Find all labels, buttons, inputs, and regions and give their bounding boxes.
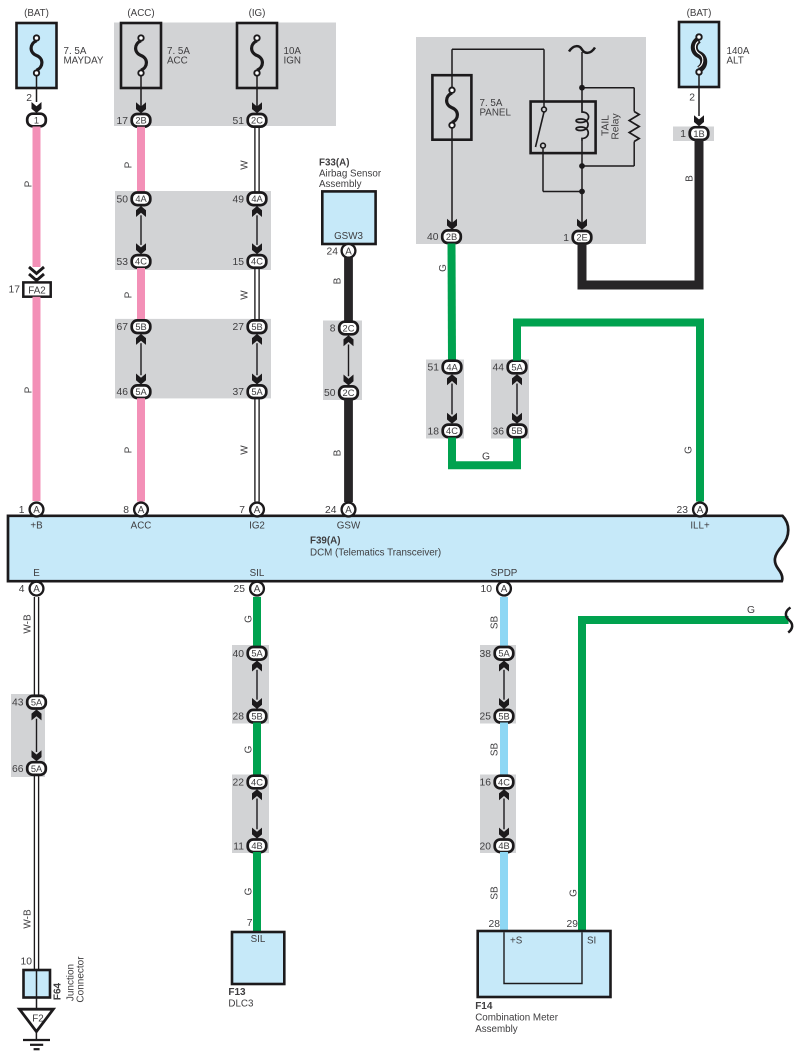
svg-text:(BAT): (BAT)	[687, 8, 712, 19]
svg-text:10: 10	[21, 957, 33, 968]
svg-text:2E: 2E	[576, 233, 587, 243]
svg-text:5B: 5B	[135, 322, 146, 332]
svg-text:+S: +S	[510, 936, 523, 947]
svg-text:SPDP: SPDP	[491, 568, 518, 579]
svg-text:17: 17	[9, 284, 21, 295]
svg-text:P: P	[123, 161, 134, 168]
svg-text:F64: F64	[53, 982, 64, 1000]
svg-text:4A: 4A	[446, 362, 458, 372]
svg-text:IGN: IGN	[284, 56, 301, 67]
svg-text:F14: F14	[475, 1001, 493, 1012]
svg-text:Relay: Relay	[611, 112, 622, 139]
svg-text:1: 1	[34, 115, 39, 125]
svg-text:10: 10	[481, 584, 493, 595]
svg-text:Assembly: Assembly	[319, 179, 362, 190]
svg-text:A: A	[345, 505, 352, 516]
svg-text:4A: 4A	[251, 194, 263, 204]
svg-text:23: 23	[677, 505, 689, 516]
svg-text:4: 4	[19, 584, 25, 595]
svg-text:P: P	[123, 291, 134, 298]
svg-text:4B: 4B	[498, 841, 509, 851]
svg-text:+B: +B	[30, 520, 43, 531]
svg-text:G: G	[568, 889, 579, 897]
svg-text:51: 51	[428, 363, 440, 374]
svg-text:28: 28	[489, 919, 501, 930]
svg-text:5A: 5A	[251, 387, 263, 397]
svg-text:40: 40	[427, 232, 439, 243]
svg-text:P: P	[23, 180, 34, 187]
svg-text:25: 25	[234, 584, 246, 595]
svg-text:A: A	[697, 505, 704, 516]
svg-text:50: 50	[324, 388, 336, 399]
svg-text:4A: 4A	[135, 194, 147, 204]
svg-text:5A: 5A	[251, 649, 263, 659]
svg-text:7: 7	[247, 918, 253, 929]
svg-text:W: W	[239, 290, 250, 300]
svg-text:SB: SB	[489, 743, 500, 757]
svg-text:2: 2	[26, 93, 32, 104]
svg-text:ILL+: ILL+	[690, 520, 710, 531]
svg-text:B: B	[333, 449, 344, 456]
svg-text:P: P	[123, 446, 134, 453]
svg-text:5A: 5A	[31, 698, 43, 708]
svg-text:A: A	[254, 584, 261, 595]
svg-text:17: 17	[117, 116, 129, 127]
svg-text:G: G	[683, 446, 694, 454]
svg-text:Assembly: Assembly	[475, 1024, 518, 1035]
svg-text:29: 29	[567, 919, 579, 930]
svg-text:F2: F2	[32, 1014, 43, 1025]
svg-text:4C: 4C	[135, 257, 147, 267]
svg-text:(BAT): (BAT)	[24, 8, 49, 19]
svg-text:44: 44	[493, 363, 505, 374]
svg-text:8: 8	[330, 324, 336, 335]
svg-text:ACC: ACC	[167, 56, 188, 67]
svg-text:B: B	[684, 175, 695, 182]
svg-text:E: E	[33, 568, 40, 579]
svg-text:5B: 5B	[498, 712, 509, 722]
svg-text:Connector: Connector	[75, 956, 86, 1003]
svg-text:22: 22	[233, 778, 245, 789]
svg-text:7: 7	[239, 505, 245, 516]
svg-text:Airbag Sensor: Airbag Sensor	[319, 169, 382, 180]
svg-text:G: G	[482, 452, 490, 463]
svg-text:24: 24	[325, 505, 337, 516]
svg-text:F39(A): F39(A)	[310, 536, 340, 547]
svg-text:SI: SI	[587, 936, 596, 947]
svg-text:DLC3: DLC3	[228, 999, 254, 1010]
svg-text:G: G	[438, 264, 449, 272]
svg-text:5A: 5A	[135, 387, 147, 397]
svg-text:W: W	[239, 445, 250, 455]
svg-text:G: G	[243, 887, 254, 895]
svg-text:FA2: FA2	[28, 286, 45, 297]
svg-text:4C: 4C	[446, 426, 458, 436]
svg-text:2C: 2C	[343, 388, 355, 398]
svg-text:W-B: W-B	[22, 614, 33, 634]
svg-text:2: 2	[689, 93, 695, 104]
svg-text:Combination Meter: Combination Meter	[475, 1013, 559, 1024]
svg-text:37: 37	[233, 387, 245, 398]
svg-text:4B: 4B	[251, 841, 262, 851]
svg-text:G: G	[243, 745, 254, 753]
svg-text:5B: 5B	[511, 426, 522, 436]
svg-text:1: 1	[563, 233, 569, 244]
svg-text:25: 25	[480, 712, 492, 723]
svg-text:18: 18	[428, 426, 440, 437]
svg-text:5A: 5A	[498, 649, 510, 659]
svg-text:51: 51	[233, 116, 245, 127]
svg-text:1B: 1B	[693, 129, 704, 139]
svg-text:8: 8	[123, 505, 129, 516]
svg-text:ACC: ACC	[131, 520, 152, 531]
svg-text:G: G	[243, 615, 254, 623]
svg-text:2B: 2B	[135, 116, 146, 126]
svg-text:PANEL: PANEL	[480, 108, 512, 119]
svg-text:2C: 2C	[343, 323, 355, 333]
svg-text:GSW3: GSW3	[334, 231, 363, 242]
svg-text:MAYDAY: MAYDAY	[64, 56, 104, 67]
svg-text:11: 11	[233, 841, 244, 852]
svg-text:5B: 5B	[251, 712, 262, 722]
svg-text:16: 16	[480, 778, 492, 789]
svg-text:4C: 4C	[498, 777, 510, 787]
svg-text:20: 20	[480, 841, 492, 852]
svg-text:IG2: IG2	[249, 520, 265, 531]
svg-text:2C: 2C	[251, 116, 263, 126]
svg-text:50: 50	[117, 194, 129, 205]
svg-text:5B: 5B	[251, 322, 262, 332]
svg-text:P: P	[23, 386, 34, 393]
svg-text:2B: 2B	[446, 232, 457, 242]
svg-text:A: A	[33, 584, 40, 595]
svg-text:GSW: GSW	[337, 520, 361, 531]
svg-text:(ACC): (ACC)	[127, 8, 154, 19]
svg-text:(IG): (IG)	[249, 8, 266, 19]
svg-text:4C: 4C	[251, 777, 263, 787]
svg-text:DCM (Telematics Transceiver): DCM (Telematics Transceiver)	[310, 548, 441, 559]
svg-text:F33(A): F33(A)	[319, 158, 349, 169]
svg-text:38: 38	[480, 649, 492, 660]
svg-text:SB: SB	[489, 886, 500, 900]
svg-text:36: 36	[493, 426, 505, 437]
svg-text:66: 66	[12, 764, 24, 775]
svg-text:A: A	[345, 246, 352, 257]
svg-text:49: 49	[233, 194, 245, 205]
svg-text:5A: 5A	[511, 362, 523, 372]
svg-text:F13: F13	[228, 987, 246, 998]
svg-text:15: 15	[233, 257, 245, 268]
svg-text:A: A	[138, 505, 145, 516]
svg-text:SIL: SIL	[251, 934, 266, 945]
svg-text:43: 43	[12, 698, 24, 709]
svg-text:1: 1	[680, 129, 686, 140]
svg-text:67: 67	[117, 322, 129, 333]
svg-text:1: 1	[19, 505, 25, 516]
svg-text:B: B	[333, 277, 344, 284]
svg-text:W-B: W-B	[22, 909, 33, 929]
svg-text:53: 53	[117, 257, 129, 268]
svg-text:A: A	[33, 505, 40, 516]
svg-text:A: A	[501, 584, 508, 595]
svg-text:4C: 4C	[251, 257, 263, 267]
svg-text:24: 24	[327, 246, 339, 257]
svg-text:SIL: SIL	[250, 568, 265, 579]
svg-text:28: 28	[233, 712, 245, 723]
svg-text:27: 27	[233, 322, 245, 333]
svg-text:G: G	[747, 605, 755, 616]
svg-text:W: W	[239, 160, 250, 170]
svg-text:A: A	[254, 505, 261, 516]
svg-text:46: 46	[117, 387, 129, 398]
svg-text:40: 40	[233, 649, 245, 660]
svg-text:SB: SB	[489, 616, 500, 630]
svg-text:ALT: ALT	[727, 56, 744, 67]
svg-text:5A: 5A	[31, 764, 43, 774]
